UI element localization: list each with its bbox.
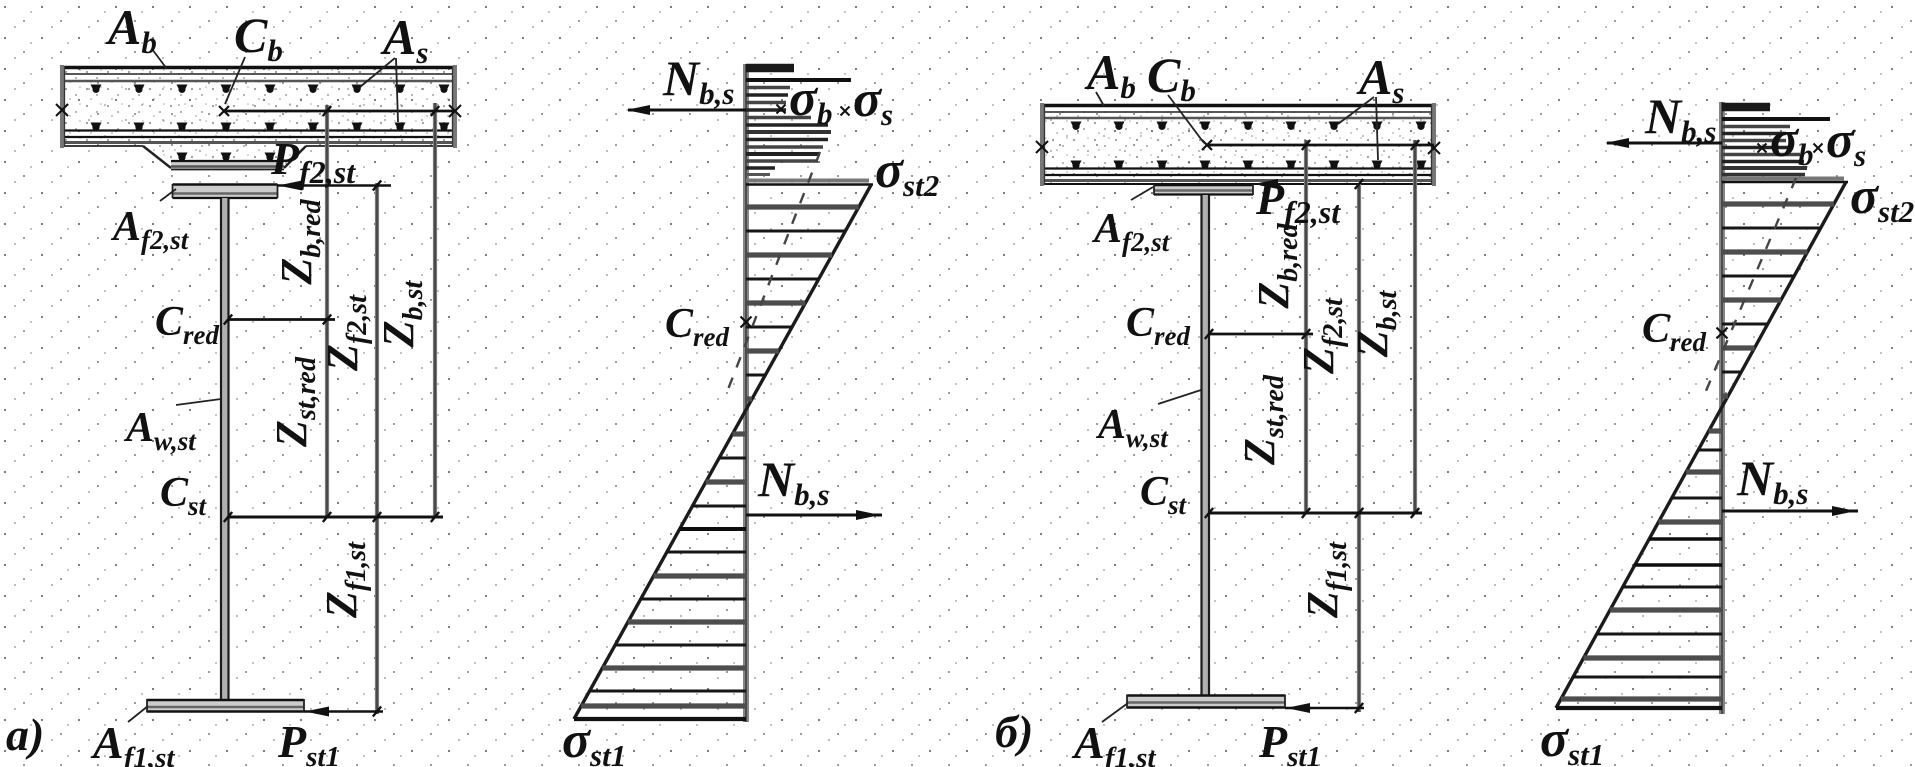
C_red level line (a): [228, 318, 335, 321]
slab (a) top rebar row: [91, 85, 450, 93]
steel stress hatching upper (diagram 2): [1722, 204, 1834, 396]
stress slope line (diagram 2): [1556, 182, 1846, 708]
C_red level line (b): [1209, 333, 1313, 336]
C_b tick right slab edge (b): [1428, 142, 1440, 154]
dashed reduced-section stress line (diagram 2): [1703, 178, 1796, 398]
label sigma_s (diagram 1): [841, 107, 850, 116]
dimension line Z_b,st (a): [433, 103, 437, 517]
dimension line Z_b,st (b): [1413, 140, 1417, 513]
slab (a) bottom edge: [62, 141, 455, 144]
stress slope line (diagram 1): [574, 185, 871, 719]
slab (a) left edge: [60, 65, 64, 148]
label C_b (a) with leader: [225, 57, 245, 104]
slab (a) bottom rebar row: [91, 123, 450, 131]
C_b centroid level line (a): [224, 110, 455, 113]
dimension line Z_b,red / Z_st,red (a): [325, 105, 329, 517]
slab (a) inner bottom line: [62, 136, 455, 138]
sigma_st1 bottom line (diagram 2): [1556, 706, 1722, 710]
svg-text:б): б): [995, 706, 1033, 757]
steel stress hatching lower (diagram 2): [1561, 431, 1722, 699]
label sigma_b (diagram 2): [1758, 144, 1767, 153]
slab (b) top edge: [1042, 104, 1434, 107]
top flange plate A_f2,st (b): [1154, 185, 1253, 195]
stress diagram 2 axis: [1719, 102, 1725, 714]
slab (b) left edge: [1040, 103, 1044, 186]
slab (b) bottom rebar row: [1071, 161, 1427, 169]
C_b tick left slab edge (b): [1036, 141, 1048, 153]
slab (b) bottom gray band: [1042, 179, 1434, 182]
C_b level tick left slab edge: [56, 104, 68, 116]
C_b centroid level line (b): [1207, 144, 1434, 147]
label A_s (a) with leaders: [360, 58, 395, 87]
steel stress hatching lower (diagram 1): [581, 434, 746, 706]
P_f2,st arrow on slab bottom (b): [1254, 179, 1278, 189]
svg-text:a): a): [6, 709, 44, 760]
stress diagram 1 axis: [743, 64, 749, 722]
slab (a) bottom rebar plane: [62, 129, 455, 131]
P_st1 level line (b): [1285, 707, 1364, 709]
dimension line Z_f2,st / Z_f1,st (a): [375, 183, 379, 714]
concrete stress block sigma_b (diagram 1): [746, 68, 851, 175]
concrete stress block sigma_b (diagram 2): [1722, 107, 1830, 175]
steel stress hatching upper (diagram 1): [746, 207, 859, 399]
slab (b) top rebar row: [1071, 122, 1427, 130]
slab (a) top rebar plane: [62, 80, 455, 83]
label sigma_s (diagram 2): [1814, 144, 1823, 153]
P_st1 level line (a): [304, 710, 383, 712]
slab (b) bottom edge / P_f2,st level: [1042, 183, 1434, 185]
dashed reduced-section stress line (diagram 1): [727, 152, 820, 392]
steel web A_w,st (a): [221, 198, 228, 700]
slab (b) bottom rebar plane: [1042, 167, 1434, 169]
sigma_st1 bottom line (diagram 1): [574, 717, 746, 721]
N_b,s tension arrow (diagram 2): [1722, 510, 1858, 513]
steel web A_w,st (b): [1202, 195, 1209, 695]
slab (a) right edge: [453, 65, 457, 148]
label A_w,st (a) with leader: [176, 399, 221, 405]
label A_b (b) with leader: [1096, 92, 1104, 106]
N_b,s compression arrow (diagram 2): [1607, 142, 1722, 145]
haunch (a) left slope: [143, 146, 171, 168]
label A_f1,st (a) with leader: [128, 706, 148, 722]
label A_f2,st (a) with leader: [160, 189, 176, 201]
dimension line Z_f2,st / Z_f1,st (b): [1357, 184, 1361, 712]
concrete slab (b) stipple: [1042, 105, 1434, 184]
dimension line Z_b,red / Z_st,red (b): [1304, 140, 1308, 513]
bottom flange A_f1,st (a): [147, 700, 304, 712]
haunch (a) right slope: [284, 146, 306, 168]
C_st level line (a): [228, 516, 443, 519]
sigma_st2 top line (diagram 2): [1722, 177, 1844, 181]
label sigma_b (diagram 1): [777, 105, 786, 114]
slab (a) top edge: [62, 66, 455, 69]
top flange plate A_f2,st (a): [173, 185, 278, 199]
label A_f2,st (b) with leader: [1131, 187, 1153, 200]
label A_f1,st (b) with leader: [1102, 703, 1128, 722]
concrete haunch (a) stipple: [143, 146, 306, 168]
P_f2,st level line (a): [277, 184, 391, 186]
flange plate 1 in haunch (a): [171, 161, 284, 170]
sigma_st2 top line (diagram 1): [746, 179, 869, 183]
C_b level tick right slab edge: [449, 105, 461, 117]
slab (b) inner bottom line: [1042, 174, 1434, 176]
slab (b) top rebar plane: [1042, 117, 1434, 120]
bottom flange A_f1,st (b): [1127, 696, 1285, 708]
label C_b (b) with leader: [1168, 95, 1204, 143]
concrete slab (a) fill/stipple: [62, 67, 455, 146]
label A_w,st (b) with leader: [1158, 390, 1201, 404]
label A_s (b) with leaders: [1338, 97, 1374, 124]
N_b,s compression arrow (diagram 1): [628, 109, 746, 112]
C_red mark on axis (diagram 2): [1717, 328, 1728, 339]
N_b,s tension arrow (diagram 1): [746, 514, 882, 517]
C_red mark on axis (diagram 1): [741, 317, 752, 328]
slab (b) right edge: [1432, 103, 1436, 186]
label A_b (a) with leader: [152, 49, 167, 69]
haunch (a) rebar row: [177, 153, 276, 161]
C_st level line (b): [1209, 512, 1422, 515]
